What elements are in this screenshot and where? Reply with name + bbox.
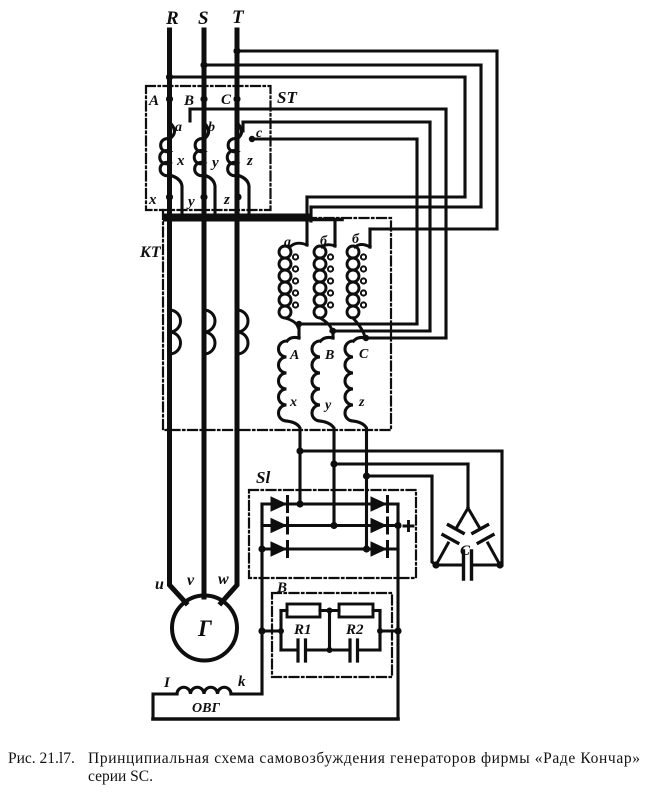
wire drop x307 to winding1 top [305, 197, 308, 245]
coil ST primary a-x [160, 139, 170, 176]
node phase B row2 [330, 522, 337, 529]
svg-text:w: w [218, 571, 229, 588]
svg-text:u: u [155, 576, 164, 593]
wire W2 bottom return y331 [331, 329, 430, 332]
svg-text:x: x [176, 153, 185, 169]
wire phase R vertical [170, 30, 187, 603]
wire branch C to capacitor bank [367, 474, 433, 477]
wire ST tap c right y139 [252, 137, 417, 140]
node branch C [363, 472, 370, 479]
wire bottom bus [153, 717, 398, 721]
svg-text:Sl: Sl [256, 468, 270, 487]
node left bus row3 [258, 545, 265, 552]
current transformer on T [237, 310, 248, 354]
capacitor C1 [281, 648, 296, 651]
svg-text:Рис. 21.l7.: Рис. 21.l7. [8, 750, 75, 767]
svg-text:серии SC.: серии SC. [88, 768, 153, 785]
wire return y197 [307, 195, 465, 198]
svg-text:b: b [208, 120, 215, 135]
node delta bottom-left [432, 561, 439, 568]
box KT dash-dot [163, 210, 391, 430]
svg-text:ST: ST [277, 88, 297, 107]
node right bus row2 [394, 522, 401, 529]
svg-text:C: C [359, 347, 369, 362]
wire vertical x465 [463, 77, 466, 197]
coil ST primary c-z [227, 139, 237, 176]
current transformer on S [204, 310, 215, 354]
capacitor C bottom plates [464, 551, 472, 579]
transformer ST box [146, 86, 271, 210]
wire from R right at y77 [170, 75, 466, 78]
wire link W1 to coil A [297, 324, 300, 338]
coil secondary C-z [354, 337, 367, 341]
capacitor bank C delta [436, 508, 500, 565]
svg-text:k: k [238, 674, 246, 690]
box B dash-dot [272, 593, 392, 677]
svg-text:R2: R2 [345, 622, 364, 638]
wire vertical x430 [428, 122, 431, 331]
wire vertical x432 [432, 476, 436, 565]
wire vertical x481 [479, 65, 482, 207]
svg-text:C: C [460, 543, 471, 559]
diode D1 [271, 497, 286, 511]
svg-text:z: z [223, 192, 230, 208]
svg-text:a: a [175, 120, 182, 135]
capacitor C right side plates [473, 525, 493, 543]
svg-text:x: x [148, 192, 157, 208]
svg-text:A: A [289, 348, 299, 363]
svg-text:Ι: Ι [163, 675, 171, 691]
wire vertical x468 [466, 464, 469, 508]
wire middle node vertical [328, 611, 331, 651]
node on R at y77 [166, 73, 173, 80]
wire right node vertical [378, 611, 381, 650]
wire neutral bus y217 thick band [163, 214, 310, 222]
svg-text:C: C [221, 92, 232, 108]
svg-text:R1: R1 [293, 622, 312, 638]
wire phase T vertical [221, 30, 237, 603]
svg-text:КТ: КТ [139, 244, 162, 261]
generator G circle [172, 596, 237, 661]
resistor R1 [281, 609, 287, 612]
wire return y229 to winding3 top [370, 227, 497, 230]
node on T at y51 [233, 47, 240, 54]
wire branch B to capacitor bank [334, 462, 468, 465]
diode D3 [271, 542, 286, 556]
svg-text:z: z [246, 153, 253, 169]
resistor R2 [339, 604, 373, 617]
wire rectifier row1 [262, 502, 398, 505]
node phase C row3 [363, 545, 370, 552]
svg-text:В: В [276, 580, 287, 596]
node delta bottom-right [496, 561, 503, 568]
coil OVG [177, 687, 231, 694]
diode D5 [371, 519, 386, 533]
wire vertical x502 [500, 451, 503, 565]
wire return y207 [311, 205, 481, 208]
node W3 bottom [363, 335, 369, 341]
wire OVG right to minus bus [231, 692, 262, 695]
svg-text:T: T [232, 7, 245, 28]
label plus [404, 522, 413, 531]
svg-text:A: A [148, 93, 159, 109]
node phase A row1 [296, 500, 303, 507]
svg-text:B: B [183, 93, 194, 109]
svg-text:z: z [358, 395, 365, 410]
wire link W2 to coil B [331, 331, 334, 338]
svg-text:Г: Г [197, 616, 212, 641]
wire left node vertical [279, 611, 282, 650]
rectifier SZ box [249, 490, 416, 578]
node branch A [296, 447, 303, 454]
svg-text:R: R [165, 8, 179, 29]
svg-text:v: v [187, 572, 195, 589]
wire phase S vertical [202, 30, 207, 597]
current transformer on R [170, 310, 181, 354]
svg-text:S: S [198, 8, 209, 29]
coil ST primary b-y [194, 139, 204, 176]
wire branch A to capacitor bank [300, 449, 502, 452]
node minus bus to box B [258, 627, 265, 634]
svg-text:B: B [324, 348, 334, 363]
winding W1 spiral [291, 243, 307, 246]
wire drop x311 to bus [309, 207, 312, 221]
wire W1 bottom return y324 [297, 322, 417, 325]
capacitor C2 [330, 648, 349, 651]
wire rectifier right bus [396, 504, 399, 719]
wire W3 bottom return y338 [364, 336, 446, 339]
node W2 bottom [330, 328, 336, 334]
capacitor C left side plates [443, 525, 463, 543]
node on S at y65 [200, 61, 207, 68]
winding W3 spiral [355, 245, 370, 248]
coil secondary B-y [321, 337, 334, 341]
wire OVG left down [153, 694, 177, 719]
diode D4 [371, 497, 386, 511]
svg-text:y: y [210, 155, 219, 171]
wire vertical x417 [415, 139, 418, 324]
winding W2 spiral [322, 245, 335, 247]
diode D6 [371, 542, 386, 556]
svg-text:y: y [323, 398, 332, 413]
wire rectifier row3 [262, 547, 398, 550]
wire vertical x446 [444, 109, 447, 338]
node c tap [249, 136, 255, 142]
wire box B right to plus bus [380, 629, 398, 632]
wire rectifier row2 [262, 524, 398, 527]
svg-text:x: x [289, 395, 297, 410]
svg-text:Принципиальная схема самовозбу: Принципиальная схема самовозбуждения ген… [88, 750, 640, 767]
diode D2 [271, 519, 286, 533]
wire ST tap right y122 [243, 122, 430, 131]
wire rectifier left bus [260, 504, 263, 694]
wire into box B left [262, 629, 281, 632]
node branch B [330, 460, 337, 467]
wire vertical x497 [495, 51, 498, 229]
svg-text:ОВГ: ОВГ [192, 701, 220, 716]
wire from S right at y65 [204, 63, 481, 66]
svg-text:y: y [186, 194, 195, 210]
wire from T right at y51 [237, 49, 497, 52]
wire ST tap b right y109 [190, 109, 446, 121]
coil secondary A-x [287, 337, 299, 341]
node W1 bottom [296, 321, 302, 327]
